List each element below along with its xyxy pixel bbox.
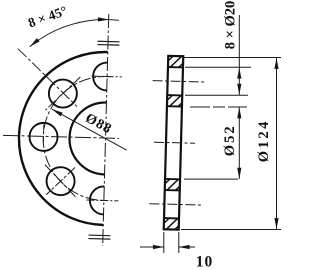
top bolt hole centerline <box>153 81 205 82</box>
extension line hole bottom (for D20) <box>185 94 248 96</box>
svg-text:10: 10 <box>196 254 214 270</box>
bolt circle (Ø88, dash-dot) <box>42 75 111 201</box>
symmetry tick top 1 <box>98 40 120 43</box>
svg-text:Ø124: Ø124 <box>256 119 272 162</box>
centerline of 90deg hole <box>92 75 122 78</box>
arrowhead 10 left <box>153 245 164 249</box>
bottom bolt hole bottom edge <box>164 217 179 219</box>
arrowhead 10 right <box>179 245 190 249</box>
arrowhead D124 up <box>274 58 278 69</box>
arrowhead D52 up <box>237 107 241 118</box>
plate main centerline <box>154 142 195 143</box>
bolt hole top edge <box>168 66 183 68</box>
radial centerline through 135deg hole (extension for angular dim) <box>16 49 78 107</box>
symmetry tick top 2 <box>97 44 119 47</box>
bolt hole at 270deg (half) <box>90 186 105 214</box>
bore arc (Ø52) <box>69 102 107 175</box>
bolt hole at 180deg <box>29 123 58 152</box>
dimension line D52 <box>238 107 240 179</box>
extension line plate top (for D124) <box>184 57 281 59</box>
symmetry tick bottom 2 <box>88 238 110 241</box>
horizontal centerline <box>3 135 119 138</box>
bore bottom edge <box>165 178 180 180</box>
bolt hole at 135deg <box>48 79 77 108</box>
extension line plate bottom (for D124) <box>181 229 281 231</box>
arrowhead at radial end <box>30 38 40 47</box>
outer circle arc (Ø124) <box>17 50 108 225</box>
plate outline <box>164 56 184 230</box>
extension line right (for 10) <box>178 232 180 253</box>
arrowhead D52 down <box>237 168 241 179</box>
bottom bolt hole centerline <box>149 204 203 205</box>
extension line left (for 10) <box>163 232 165 253</box>
tangential centerline of 135deg hole <box>45 76 80 111</box>
dimension line 10 right part <box>179 246 195 248</box>
centerline of 270deg hole <box>86 199 118 202</box>
vertical centerline of 180deg hole <box>42 124 45 144</box>
dimension line D124 <box>276 58 278 230</box>
symmetry tick bottom 1 <box>88 234 110 237</box>
extension line bore top (for D52) <box>190 106 247 108</box>
arrowhead D124 down <box>274 218 278 229</box>
bolt hole bottom edge <box>167 94 182 96</box>
bolt hole at 225deg <box>46 167 75 196</box>
dimension line 8xD20 <box>238 15 240 95</box>
bolt hole at 90deg (half) <box>93 62 108 90</box>
vertical symmetry axis <box>103 14 109 246</box>
arrowhead D20 up <box>237 68 241 79</box>
bore top edge <box>167 105 182 107</box>
extension line bore bottom (for D52) <box>184 178 238 180</box>
tangential centerline of 225deg hole <box>44 165 77 198</box>
svg-text:8 × Ø20: 8 × Ø20 <box>223 1 239 50</box>
extension line hole top (for D20) <box>185 66 251 68</box>
arrowhead of Ø88 dim <box>52 109 63 116</box>
svg-text:Ø52: Ø52 <box>222 124 238 156</box>
arrowhead at axis end <box>98 17 109 21</box>
dimension line 10 left part <box>140 246 164 248</box>
angular dimension arc 8x45 <box>30 18 119 49</box>
dimension line Ø88 (diagonal through center) <box>51 109 128 150</box>
bottom bolt hole top edge <box>165 189 180 191</box>
arrowhead D20 down <box>237 84 241 95</box>
radial centerline of 225deg hole <box>46 167 75 196</box>
